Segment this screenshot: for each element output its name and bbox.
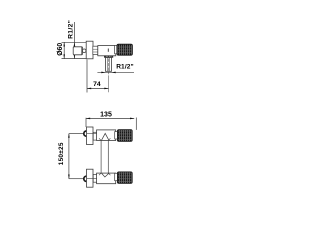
hidden supply line through upper flange <box>87 133 97 135</box>
arrowhead right 74 <box>104 88 108 90</box>
lower cone from riser <box>101 173 109 177</box>
valve body (horizontal cylinder) <box>98 46 116 56</box>
upper riser seat flare <box>99 138 101 140</box>
wall flange (side view) <box>86 41 93 59</box>
inlet connector inner seam <box>81 47 83 55</box>
arrowhead down at inlet dim bottom <box>74 54 76 58</box>
extension line 74-dim left (wall face) <box>86 60 88 93</box>
extension line 135 left (wall face of upper flange) <box>85 118 87 127</box>
lower riser seat flare <box>99 173 101 175</box>
riser tube <box>100 140 102 173</box>
outlet collar under body <box>104 56 113 58</box>
upper eccentric nut (dark) <box>84 131 89 136</box>
dim line R1/2 vertical leader <box>73 22 75 59</box>
neck between body and handle <box>115 45 117 53</box>
dim line Ø60 vertical <box>63 42 65 58</box>
arrowhead up at inlet dim top <box>74 42 76 46</box>
dim line 135 <box>86 117 134 119</box>
upper wall flange (front view) <box>87 127 94 145</box>
inlet connector body (rounded, goes into wall) <box>73 47 82 55</box>
centerline solid extension to 74 dim <box>108 75 110 92</box>
arrowhead down Ø60 <box>63 54 65 58</box>
extension line top (flange top edge extended) <box>62 41 87 43</box>
pipe thread relief lines <box>106 58 108 72</box>
hidden supply line through lower flange <box>87 178 97 180</box>
lower wall flange (front view) <box>87 169 94 187</box>
lower eccentric nut (dark) <box>84 176 89 181</box>
arrowhead down 150 <box>68 175 70 179</box>
extension line 150 bottom / supply leader lower <box>69 178 83 180</box>
lower knurled handle <box>117 172 132 184</box>
outlet pipe down <box>106 58 112 72</box>
dim line 150±25 vertical <box>68 134 70 179</box>
svg-text:Ø60: Ø60 <box>57 43 64 56</box>
dim line 74 <box>87 87 109 89</box>
arrowhead right 135 <box>130 118 134 120</box>
extension line 135 right <box>135 118 137 130</box>
arrowhead right (to pipe left edge) <box>101 72 105 74</box>
upper neck <box>115 132 118 139</box>
upper valve body <box>97 130 116 141</box>
inlet connector tip bump <box>83 49 86 53</box>
body seam tick <box>107 49 109 52</box>
lower neck <box>115 173 118 180</box>
arrowhead left (to pipe right edge) <box>111 72 115 74</box>
lower ribbed connector <box>93 174 97 182</box>
pipe centerline (dashed) <box>108 59 110 75</box>
knurled handle (side view) <box>117 44 132 55</box>
extension line 150 top / supply leader upper <box>69 133 83 135</box>
svg-text:R1/2": R1/2" <box>68 20 75 39</box>
dim line R1/2 outlet horizontal <box>97 71 134 73</box>
svg-text:150±25: 150±25 <box>58 142 65 165</box>
upper ribbed connector <box>93 132 97 140</box>
arrowhead left 74 <box>87 88 91 90</box>
extension line bottom (flange bottom edge extended) <box>62 58 87 60</box>
svg-text:135: 135 <box>100 111 112 118</box>
svg-text:74: 74 <box>93 81 101 88</box>
upper knurled handle <box>117 130 132 142</box>
upper cone into riser <box>101 133 109 140</box>
arrowhead up 150 <box>68 133 70 137</box>
arrowhead up Ø60 <box>63 42 65 46</box>
lower valve body <box>97 173 116 184</box>
ribbed connector after flange <box>93 46 98 54</box>
svg-text:R1/2": R1/2" <box>116 64 134 71</box>
arrowhead left 135 <box>86 118 90 120</box>
